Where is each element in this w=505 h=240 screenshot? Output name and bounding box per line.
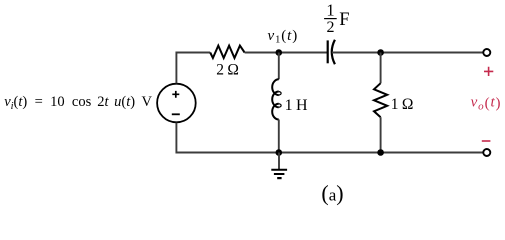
terminal bottom output	[483, 149, 490, 156]
wire resistor to capacitor through node v1	[245, 52, 328, 54]
svg-text:1 Ω: 1 Ω	[391, 96, 413, 113]
resistor R 2ohm	[210, 46, 244, 58]
node top of 1 ohm	[377, 49, 384, 56]
red plus sign	[484, 67, 493, 76]
svg-text:F: F	[339, 10, 349, 30]
svg-text:vo(t): vo(t)	[471, 95, 502, 113]
svg-text:2t: 2t	[97, 94, 109, 110]
svg-text:1 H: 1 H	[285, 97, 308, 114]
svg-text:1: 1	[326, 0, 334, 19]
voltage source VS	[157, 84, 196, 123]
svg-text:u(t): u(t)	[114, 94, 135, 110]
label source equation	[4, 94, 152, 112]
wire capacitor to top output terminal through node	[332, 52, 483, 54]
wire bottom rail from source to bottom terminal	[176, 123, 483, 153]
ground	[271, 153, 287, 179]
node bottom of 1 ohm	[377, 149, 384, 156]
svg-text:(a): (a)	[321, 181, 343, 206]
svg-text:cos: cos	[72, 94, 92, 110]
label 1/2 F	[324, 0, 349, 35]
svg-text:10: 10	[50, 94, 65, 110]
wire source top to resistor 2ohm	[176, 53, 210, 84]
svg-text:vi(t): vi(t)	[4, 94, 27, 112]
svg-text:V: V	[142, 94, 153, 110]
inductor L 1H	[272, 53, 281, 153]
resistor R 1ohm	[374, 53, 387, 153]
svg-text:v1(t): v1(t)	[268, 28, 299, 46]
red minus sign	[482, 140, 491, 142]
node bottom of inductor	[276, 149, 283, 156]
svg-text:2 Ω: 2 Ω	[216, 61, 238, 78]
node v1	[276, 49, 283, 56]
svg-text:2: 2	[327, 19, 335, 36]
capacitor C 1/2 F	[328, 40, 335, 64]
terminal top output	[483, 49, 490, 56]
svg-text:=: =	[35, 94, 43, 110]
